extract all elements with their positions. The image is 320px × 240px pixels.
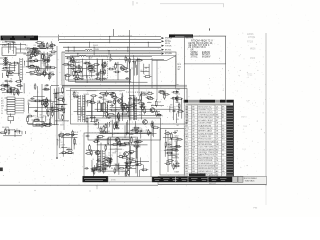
svg-text:C7: C7 [164, 93, 166, 95]
resistor [120, 156, 128, 158]
wire [102, 59, 104, 81]
svg-text:58: 58 [128, 169, 130, 171]
wire [110, 107, 132, 109]
inductor [9, 88, 17, 90]
svg-text:652: 652 [13, 44, 16, 46]
wire [138, 161, 149, 163]
signal arrow [162, 37, 165, 39]
wire [116, 139, 118, 171]
capacitor [104, 61, 106, 67]
transistor Q6 [117, 99, 122, 104]
svg-text:88TML8R23A: 88TML8R23A [198, 143, 212, 146]
wire [18, 63, 20, 77]
wire [137, 130, 144, 132]
wire [119, 140, 121, 147]
resistor [177, 110, 184, 112]
resistor [135, 141, 143, 143]
wire [62, 135, 64, 157]
wire [173, 165, 180, 167]
bottom label tail strip [108, 177, 152, 182]
wire [140, 70, 149, 72]
wire [34, 60, 38, 62]
inductor [133, 145, 141, 147]
svg-text:7201AC0KM8T1: 7201AC0KM8T1 [198, 148, 215, 151]
bus tap wire [73, 47, 75, 52]
capacitor [176, 95, 178, 103]
edge mark [0, 168, 3, 172]
wire [120, 104, 127, 106]
capacitor [33, 60, 40, 62]
junction [56, 157, 58, 159]
capacitor [88, 64, 92, 66]
svg-text:77: 77 [10, 71, 12, 73]
title block divider [158, 181, 232, 183]
resistor [165, 141, 167, 148]
resistor [37, 46, 45, 48]
inductor [178, 103, 180, 110]
svg-text:23: 23 [47, 64, 49, 66]
diode [139, 106, 146, 108]
capacitor [91, 169, 98, 171]
junction [108, 50, 109, 51]
resistor [30, 71, 34, 73]
wire [97, 144, 134, 146]
relay contact segment [7, 97, 15, 99]
inductor L1 [85, 49, 92, 50]
wire [26, 55, 30, 57]
bottom label bar [83, 176, 109, 182]
wire [19, 131, 21, 134]
resistor [30, 66, 34, 68]
svg-text:85: 85 [52, 102, 54, 104]
wire [87, 111, 92, 113]
wire [34, 55, 38, 57]
svg-text:0QM1: 0QM1 [145, 133, 150, 135]
capacitor [75, 96, 79, 98]
svg-text:L8: L8 [131, 159, 133, 161]
trunk wire 5 [156, 60, 158, 100]
capacitor [136, 128, 138, 135]
svg-text:54: 54 [151, 122, 153, 124]
crystal Y1 [110, 54, 112, 61]
svg-text:78: 78 [122, 96, 124, 98]
svg-text:2EM: 2EM [59, 119, 63, 121]
svg-text:C4: C4 [60, 132, 62, 134]
parts list rows [185, 107, 226, 181]
capacitor [9, 72, 13, 74]
wire [56, 104, 66, 106]
wire [10, 64, 17, 66]
wire [140, 130, 142, 138]
inductor [2, 67, 9, 69]
connector J1 pins [78, 95, 81, 122]
svg-text:E72: E72 [97, 101, 100, 103]
inductor [129, 105, 137, 107]
diode [62, 86, 64, 94]
wire [104, 164, 141, 166]
resistor [81, 66, 83, 73]
wire [126, 166, 128, 173]
wire [95, 138, 130, 140]
wire [13, 42, 15, 54]
speck [89, 190, 90, 191]
wire [14, 132, 16, 137]
wire [33, 95, 45, 97]
capacitor [30, 97, 34, 99]
wire [132, 99, 140, 101]
wire [14, 61, 16, 71]
wire [100, 143, 102, 168]
capacitor [102, 161, 110, 163]
wire [103, 163, 105, 173]
capacitor [172, 110, 176, 112]
wire [173, 97, 175, 120]
svg-text:55: 55 [27, 102, 29, 104]
bus wire +V [59, 35, 161, 37]
wire [107, 105, 109, 116]
bus tap wire [77, 53, 79, 56]
relay contact segment [7, 107, 15, 109]
capacitor [34, 47, 36, 54]
wire [122, 68, 128, 70]
resistor [30, 60, 34, 62]
bus wire [65, 52, 161, 54]
capacitor [69, 60, 77, 62]
svg-text:32LR: 32LR [74, 132, 79, 134]
svg-text:L7: L7 [18, 85, 20, 87]
wire [15, 107, 24, 109]
wire [43, 52, 45, 67]
wire [101, 164, 107, 166]
diode [7, 70, 9, 78]
inductor [34, 100, 42, 102]
diode [100, 168, 107, 170]
wire [125, 164, 127, 174]
wire [86, 114, 161, 116]
wire [115, 95, 117, 123]
wire [175, 56, 177, 89]
svg-text:70: 70 [37, 117, 39, 119]
svg-text:KM: KM [177, 106, 180, 108]
wire [74, 63, 76, 83]
svg-text:44: 44 [1, 113, 3, 115]
capacitor [91, 170, 95, 172]
wire [143, 165, 145, 172]
rail wire [66, 90, 125, 92]
transformer T1 [2, 47, 16, 55]
capacitor [124, 71, 128, 73]
wire [118, 163, 120, 175]
wire [2, 73, 4, 78]
transistor Q4 [110, 92, 115, 97]
transistor Q7 [142, 120, 147, 125]
inductor [52, 110, 60, 112]
resistor [66, 57, 73, 59]
wire [115, 164, 117, 171]
bus wire [65, 50, 85, 52]
trunk wire [129, 30, 131, 180]
wire [102, 94, 107, 96]
fold tick bottom [96, 185, 98, 189]
relay contact segment [7, 109, 15, 111]
wire [57, 108, 65, 110]
capacitor [105, 165, 109, 167]
wire [76, 81, 148, 83]
zone label text [175, 35, 192, 37]
resistor [91, 168, 99, 170]
wire [6, 81, 8, 94]
svg-text:C5: C5 [28, 114, 30, 116]
zone label bar [169, 34, 193, 37]
wire [56, 88, 58, 125]
wire [29, 67, 50, 69]
wire [28, 47, 39, 49]
svg-text:FIG: FIG [254, 208, 258, 210]
capacitor [57, 99, 65, 101]
capacitor [156, 114, 163, 116]
capacitor [48, 54, 52, 56]
inductor [123, 105, 125, 112]
wire [107, 122, 109, 133]
wire [147, 102, 151, 104]
resistor [0, 88, 6, 90]
capacitor [141, 103, 145, 105]
capacitor [85, 135, 89, 137]
wire [100, 133, 157, 135]
svg-text:Q6: Q6 [73, 92, 75, 94]
svg-text:AA49C9R42903: AA49C9R42903 [198, 154, 215, 157]
bus wire [65, 56, 79, 58]
module enclosure A5 [160, 129, 184, 176]
wire [144, 66, 149, 68]
inductor [62, 114, 64, 121]
wire [40, 47, 54, 49]
capacitor [49, 67, 57, 69]
wire [109, 138, 111, 164]
wire [58, 87, 60, 119]
resistor [48, 73, 50, 81]
wire [34, 83, 36, 90]
match line tick [209, 28, 211, 30]
diagonal wire [167, 56, 176, 61]
resistor [30, 55, 34, 57]
diode [88, 66, 95, 68]
bottom label bar text [84, 178, 106, 180]
wire [91, 121, 97, 123]
svg-text:16: 16 [108, 153, 110, 155]
wire [171, 132, 173, 140]
capacitor [129, 152, 133, 154]
svg-text:K1M: K1M [2, 45, 7, 47]
wire [41, 84, 43, 128]
capacitor [163, 93, 170, 95]
junction [89, 42, 90, 43]
wire [52, 84, 59, 86]
wire [66, 79, 130, 81]
svg-text:4E8: 4E8 [80, 76, 83, 78]
title block base [158, 176, 267, 184]
capacitor [164, 92, 166, 100]
signal arrow [162, 40, 165, 42]
wire [73, 139, 75, 150]
wire [59, 153, 74, 155]
wire [7, 44, 9, 54]
capacitor [105, 144, 107, 151]
capacitor [147, 98, 154, 100]
wire [53, 92, 59, 94]
enclosure inner line [70, 55, 176, 57]
parts list header dark cells [184, 100, 234, 103]
svg-text:21Q8: 21Q8 [157, 102, 162, 104]
capacitor [64, 75, 71, 77]
svg-text:93: 93 [174, 106, 176, 108]
wire [56, 139, 58, 145]
resistor [17, 88, 19, 95]
wire [91, 64, 93, 77]
capacitor [48, 56, 50, 63]
wire [139, 157, 141, 163]
wire [141, 91, 143, 119]
svg-text:A5: A5 [138, 143, 140, 146]
bus wire [59, 41, 161, 43]
resistor [83, 62, 90, 64]
dashed sub-module [90, 56, 108, 79]
svg-text:381E: 381E [71, 137, 76, 139]
resistor [37, 45, 45, 47]
wire [163, 137, 178, 139]
capacitor [164, 133, 171, 135]
svg-text:09: 09 [140, 70, 142, 72]
resistor [114, 98, 116, 105]
wire [134, 95, 136, 120]
wire [97, 136, 105, 138]
svg-text:3M2: 3M2 [60, 125, 64, 127]
wire [111, 96, 119, 98]
wire [93, 171, 95, 177]
wire [96, 137, 98, 168]
wire [92, 50, 161, 52]
svg-text:8K7V1: 8K7V1 [165, 49, 172, 51]
wire [46, 52, 48, 71]
capacitor [44, 88, 48, 90]
inductor [41, 99, 43, 107]
capacitor [118, 116, 120, 123]
resistor [109, 161, 111, 169]
parts list subheader text [186, 103, 230, 105]
wire [16, 85, 23, 87]
svg-text:17: 17 [74, 57, 76, 59]
registration speck [136, 2, 137, 3]
wire [115, 64, 122, 66]
speck [34, 190, 35, 191]
svg-text:6RQ: 6RQ [176, 93, 181, 95]
svg-text:7K44: 7K44 [143, 95, 147, 97]
wire [120, 145, 126, 147]
wire [64, 75, 66, 80]
resistor [62, 63, 69, 65]
svg-text:22846: 22846 [247, 34, 254, 36]
wire [103, 65, 105, 75]
rail wire [62, 84, 187, 86]
bus tap wire [127, 47, 129, 52]
capacitor [104, 69, 106, 76]
relay contact segment [7, 99, 15, 101]
wire [9, 64, 11, 74]
capacitor [85, 167, 89, 169]
diode [103, 125, 105, 133]
wire [51, 104, 53, 110]
svg-text:EC4A01CE26T: EC4A01CE26T [198, 119, 214, 122]
wire [38, 66, 40, 72]
svg-text:E6: E6 [35, 59, 37, 61]
wire [129, 57, 131, 64]
capacitor [34, 110, 38, 112]
wire [15, 97, 24, 99]
junction [127, 47, 128, 48]
title block middle cells [233, 177, 244, 183]
svg-text:75: 75 [112, 134, 114, 136]
wire [126, 120, 128, 134]
wire [136, 162, 138, 166]
wire [0, 43, 26, 45]
capacitor [11, 41, 15, 43]
wire [34, 48, 46, 50]
capacitor [71, 68, 75, 70]
capacitor [62, 97, 64, 104]
capacitor [0, 84, 8, 86]
svg-text:R4: R4 [104, 69, 106, 71]
capacitor [117, 112, 119, 120]
bus terminal tick [58, 35, 60, 41]
svg-text:Q200: Q200 [121, 171, 126, 173]
resistor [68, 65, 75, 67]
wire [130, 146, 132, 166]
resistor [97, 136, 99, 142]
resistor [96, 166, 103, 168]
svg-text:52: 52 [102, 130, 104, 132]
wire [58, 135, 65, 137]
resistor [135, 59, 143, 61]
svg-text:K0: K0 [174, 109, 176, 111]
wire [31, 101, 58, 103]
capacitor [6, 90, 13, 92]
capacitor [167, 143, 171, 145]
wire [128, 99, 130, 120]
capacitor [15, 81, 22, 83]
capacitor [128, 151, 136, 153]
wire [117, 164, 119, 170]
wire [135, 65, 137, 76]
wire [225, 36, 227, 100]
inductor [125, 55, 127, 62]
wire [135, 138, 137, 173]
resistor [146, 93, 154, 95]
border tail [265, 186, 267, 205]
svg-text:72: 72 [27, 116, 29, 118]
capacitor [17, 89, 19, 96]
revision block bar [1, 36, 39, 41]
svg-text:47E: 47E [175, 146, 179, 148]
capacitor [140, 169, 148, 171]
svg-text:8V28KV: 8V28KV [202, 56, 211, 58]
capacitor [98, 169, 102, 171]
resistor [61, 104, 63, 111]
wire [121, 94, 123, 112]
bus tap wire [89, 42, 91, 48]
wire [178, 109, 180, 117]
capacitor [152, 127, 160, 129]
wire [168, 155, 176, 157]
